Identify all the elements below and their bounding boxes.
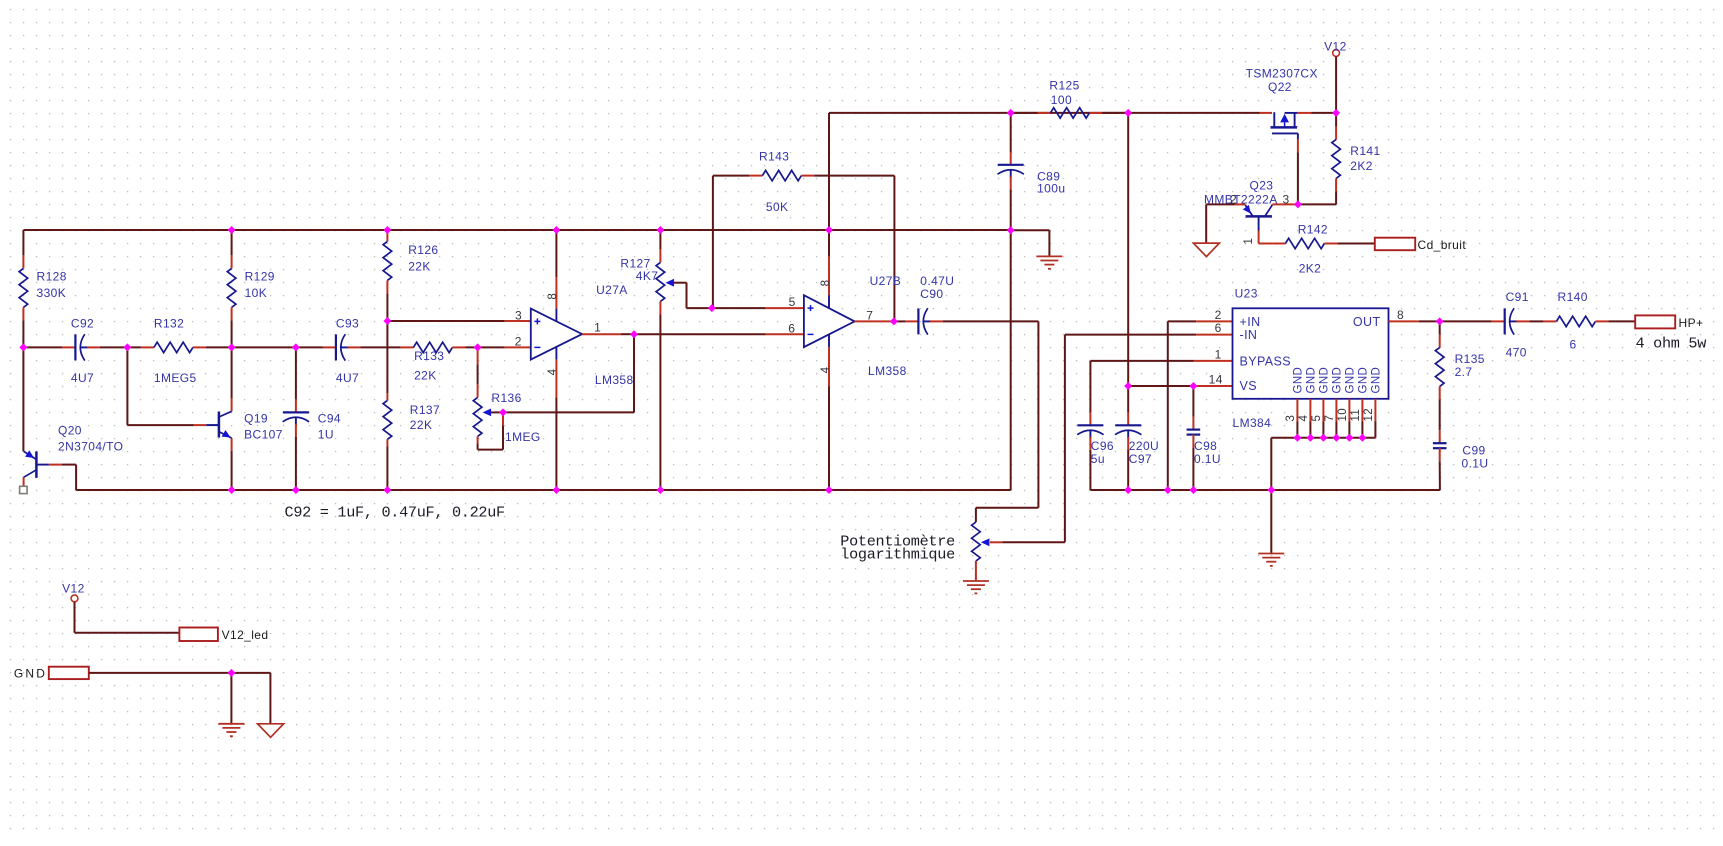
svg-text:logarithmique: logarithmique — [840, 546, 955, 564]
svg-text:MMBT2222A: MMBT2222A — [1204, 193, 1278, 207]
svg-text:GND: GND — [1358, 367, 1370, 394]
svg-text:100u: 100u — [1037, 182, 1065, 196]
svg-text:4K7: 4K7 — [636, 269, 659, 283]
svg-text:GND: GND — [1332, 367, 1344, 394]
svg-text:4 ohm 5w: 4 ohm 5w — [1636, 334, 1707, 352]
svg-text:R142: R142 — [1298, 222, 1328, 236]
svg-text:Q22: Q22 — [1268, 80, 1292, 94]
svg-text:1: 1 — [594, 320, 601, 334]
svg-text:C92: C92 — [71, 317, 94, 331]
svg-text:2N3704/TO: 2N3704/TO — [58, 439, 123, 453]
svg-text:470: 470 — [1506, 346, 1527, 360]
svg-text:5u: 5u — [1091, 452, 1105, 466]
svg-text:R129: R129 — [245, 270, 275, 284]
svg-text:LM384: LM384 — [1233, 416, 1272, 430]
svg-text:8: 8 — [820, 280, 832, 287]
svg-text:GND: GND — [1293, 367, 1305, 394]
svg-text:Cd_bruit: Cd_bruit — [1418, 238, 1467, 252]
svg-text:2: 2 — [515, 334, 522, 348]
svg-text:8: 8 — [1397, 308, 1404, 322]
svg-text:C93: C93 — [336, 317, 359, 331]
svg-text:5: 5 — [789, 295, 796, 309]
svg-text:7: 7 — [866, 308, 873, 322]
svg-text:R140: R140 — [1558, 290, 1588, 304]
svg-text:C92 = 1uF, 0.47uF, 0.22uF: C92 = 1uF, 0.47uF, 0.22uF — [285, 504, 506, 522]
svg-text:3: 3 — [1285, 415, 1297, 422]
svg-text:C90: C90 — [920, 287, 943, 301]
svg-text:+IN: +IN — [1240, 315, 1261, 329]
svg-text:4U7: 4U7 — [71, 371, 94, 385]
svg-text:U27A: U27A — [596, 283, 628, 297]
svg-text:GND: GND — [1306, 367, 1318, 394]
svg-text:GND: GND — [14, 666, 47, 680]
svg-text:C99: C99 — [1462, 443, 1485, 457]
svg-text:R128: R128 — [37, 270, 67, 284]
svg-text:U27B: U27B — [870, 274, 902, 288]
svg-text:14: 14 — [1209, 373, 1223, 387]
svg-text:V12: V12 — [62, 582, 85, 596]
svg-text:22K: 22K — [410, 418, 433, 432]
svg-text:R136: R136 — [491, 391, 521, 405]
svg-text:10K: 10K — [245, 286, 268, 300]
svg-text:BYPASS: BYPASS — [1240, 355, 1292, 369]
svg-text:R133: R133 — [414, 349, 444, 363]
svg-text:0.47U: 0.47U — [920, 274, 954, 288]
svg-text:C94: C94 — [318, 412, 341, 426]
svg-text:OUT: OUT — [1353, 315, 1381, 329]
svg-text:V12: V12 — [1324, 39, 1347, 53]
svg-text:VS: VS — [1240, 379, 1257, 393]
svg-text:10: 10 — [1337, 408, 1349, 422]
svg-text:R143: R143 — [759, 150, 789, 164]
svg-text:2: 2 — [1215, 308, 1222, 322]
svg-text:R132: R132 — [154, 317, 184, 331]
svg-text:100: 100 — [1051, 93, 1072, 107]
svg-text:R125: R125 — [1049, 79, 1079, 93]
svg-text:-IN: -IN — [1240, 328, 1258, 342]
svg-text:7: 7 — [1324, 415, 1336, 422]
svg-text:2K2: 2K2 — [1350, 159, 1373, 173]
svg-text:4: 4 — [547, 368, 559, 375]
svg-text:GND: GND — [1371, 367, 1383, 394]
svg-text:1: 1 — [1243, 238, 1255, 245]
svg-text:TSM2307CX: TSM2307CX — [1246, 67, 1318, 81]
svg-text:0.1U: 0.1U — [1462, 456, 1489, 470]
svg-text:3: 3 — [515, 308, 522, 322]
svg-text:GND: GND — [1319, 367, 1331, 394]
svg-text:6: 6 — [1570, 338, 1577, 352]
svg-text:U23: U23 — [1235, 287, 1258, 301]
svg-text:8: 8 — [547, 293, 559, 300]
svg-text:2K2: 2K2 — [1299, 261, 1322, 275]
svg-text:Q20: Q20 — [58, 424, 82, 438]
svg-text:4: 4 — [820, 366, 832, 373]
svg-text:0.1U: 0.1U — [1194, 452, 1221, 466]
svg-text:4: 4 — [1298, 415, 1310, 422]
svg-text:C98: C98 — [1194, 439, 1217, 453]
svg-text:Q19: Q19 — [244, 412, 268, 426]
svg-text:R141: R141 — [1350, 144, 1380, 158]
svg-text:1MEG5: 1MEG5 — [154, 371, 197, 385]
svg-text:330K: 330K — [37, 286, 67, 300]
svg-text:HP+: HP+ — [1679, 316, 1704, 330]
svg-text:4U7: 4U7 — [336, 371, 359, 385]
svg-text:220U: 220U — [1129, 439, 1159, 453]
svg-text:BC107: BC107 — [244, 428, 283, 442]
svg-text:Q23: Q23 — [1250, 179, 1274, 193]
svg-text:R126: R126 — [408, 243, 438, 257]
svg-text:LM358: LM358 — [868, 364, 907, 378]
svg-text:22K: 22K — [414, 369, 437, 383]
svg-text:2.7: 2.7 — [1455, 365, 1473, 379]
svg-text:C91: C91 — [1506, 290, 1529, 304]
svg-text:6: 6 — [1215, 321, 1222, 335]
svg-text:C96: C96 — [1091, 439, 1114, 453]
svg-text:1MEG: 1MEG — [505, 430, 541, 444]
svg-text:R135: R135 — [1455, 352, 1485, 366]
svg-text:1U: 1U — [318, 428, 334, 442]
svg-text:22K: 22K — [408, 259, 431, 273]
svg-text:C97: C97 — [1129, 452, 1152, 466]
svg-text:V12_led: V12_led — [222, 628, 269, 642]
svg-text:6: 6 — [788, 321, 795, 335]
svg-text:1: 1 — [1215, 347, 1222, 361]
svg-text:R137: R137 — [410, 403, 440, 417]
svg-text:GND: GND — [1345, 367, 1357, 394]
svg-text:11: 11 — [1350, 409, 1362, 422]
svg-text:3: 3 — [1283, 192, 1290, 206]
svg-text:LM358: LM358 — [595, 373, 634, 387]
svg-text:50K: 50K — [766, 200, 789, 214]
svg-text:5: 5 — [1311, 415, 1323, 422]
svg-text:12: 12 — [1363, 408, 1375, 422]
svg-text:2: 2 — [1230, 192, 1237, 206]
